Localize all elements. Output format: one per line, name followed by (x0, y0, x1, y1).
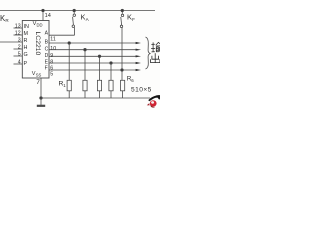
wire R5 to rail (121, 91, 123, 98)
node junction VSS on bottom rail (40, 97, 43, 100)
wire R4 to rail (110, 91, 112, 98)
svg-text:6: 6 (50, 66, 53, 72)
logo watermark (147, 95, 160, 108)
wire pin 14 VDD drop (42, 11, 44, 21)
resistor R5 (121, 80, 125, 91)
wire pin 4 P stub (14, 63, 23, 65)
svg-text:10: 10 (50, 46, 56, 52)
label output chinese shu (151, 42, 161, 52)
wire VDD top rail (0, 10, 155, 12)
svg-text:13: 13 (15, 23, 21, 29)
svg-text:11: 11 (50, 37, 56, 43)
wire pin 2 H stub (14, 48, 23, 50)
node tap on line D (98, 55, 101, 58)
arrowhead output C (136, 49, 141, 51)
svg-text:LC2210: LC2210 (34, 32, 41, 56)
arrowhead output B (136, 42, 141, 44)
wire R3 to rail (99, 91, 101, 98)
wire bottom ground rail (41, 97, 150, 99)
svg-text:5: 5 (18, 51, 21, 57)
wire R4 drop from line E (110, 63, 112, 80)
wire pin 12 M stub (14, 34, 23, 36)
node tap on line E (110, 62, 113, 65)
svg-text:2: 2 (18, 44, 21, 50)
chip U1 LC2210 body (22, 21, 49, 79)
svg-text:IN: IN (24, 24, 29, 30)
label resistor R1 (59, 81, 67, 89)
label chip pin VSS (32, 71, 42, 77)
wire output line C pin 9 (49, 49, 138, 51)
node tap on line B (68, 42, 71, 45)
svg-text:H: H (24, 45, 28, 51)
wire pin A to switch KA (49, 34, 75, 36)
svg-text:M: M (24, 31, 29, 37)
label switch KR (0, 14, 9, 23)
resistor R1 (67, 80, 71, 91)
label switch KA (81, 13, 90, 22)
svg-text:3: 3 (18, 37, 21, 43)
wire output line B pin 10 (49, 42, 138, 44)
wire pin 13 IN stub (14, 27, 23, 29)
svg-text:F: F (132, 17, 135, 22)
svg-text:9: 9 (50, 53, 53, 59)
arrowhead output E (136, 62, 141, 64)
switch KA (72, 11, 75, 36)
brace output group (146, 37, 151, 69)
label resistor R6 (127, 75, 134, 83)
svg-text:D: D (45, 53, 49, 59)
svg-text:DD: DD (37, 22, 43, 27)
node tap on line F (121, 69, 124, 72)
resistor R3 (97, 80, 101, 91)
svg-text:7: 7 (36, 79, 40, 86)
svg-text:510×5: 510×5 (131, 87, 152, 94)
wire output line F pin 5 (49, 69, 138, 71)
wire R3 drop from line D (99, 56, 101, 80)
wire R2 drop from line C (84, 50, 86, 81)
arrowhead output D (136, 55, 141, 57)
svg-text:G: G (24, 52, 28, 58)
svg-text:5: 5 (50, 72, 53, 78)
ground (37, 98, 45, 106)
label chip pin VDD (33, 21, 43, 27)
node tap on line C (84, 48, 87, 51)
svg-text:F: F (45, 66, 48, 72)
switch KF (120, 11, 123, 28)
node junction KA on rail (73, 9, 76, 12)
node junction KF on rail (121, 9, 124, 12)
label output chinese chu (151, 53, 160, 62)
resistor R4 (109, 80, 113, 91)
svg-text:SS: SS (36, 72, 42, 77)
wire pin 3 R from left edge (switch KR) (0, 41, 22, 43)
wire output line E pin 6 (49, 62, 138, 64)
node junction pin14 on rail (42, 9, 45, 12)
wire pin 7 VSS down (40, 78, 42, 98)
label switch KF (127, 13, 135, 22)
resistor R2 (83, 80, 87, 91)
wire pin 5 G stub (14, 55, 23, 57)
arrowhead output F (136, 69, 141, 71)
wire R1 drop from line B (68, 43, 70, 80)
wire R2 to rail (84, 91, 86, 98)
svg-text:P: P (24, 61, 28, 67)
svg-text:12: 12 (15, 30, 21, 36)
wire output line D pin 8 (49, 55, 138, 57)
wire switch KF down to node F (121, 27, 123, 80)
wire R1 to rail (68, 91, 70, 98)
svg-text:C: C (45, 47, 49, 53)
svg-text:R: R (24, 38, 28, 44)
svg-text:4: 4 (18, 59, 21, 65)
svg-text:14: 14 (45, 13, 51, 19)
